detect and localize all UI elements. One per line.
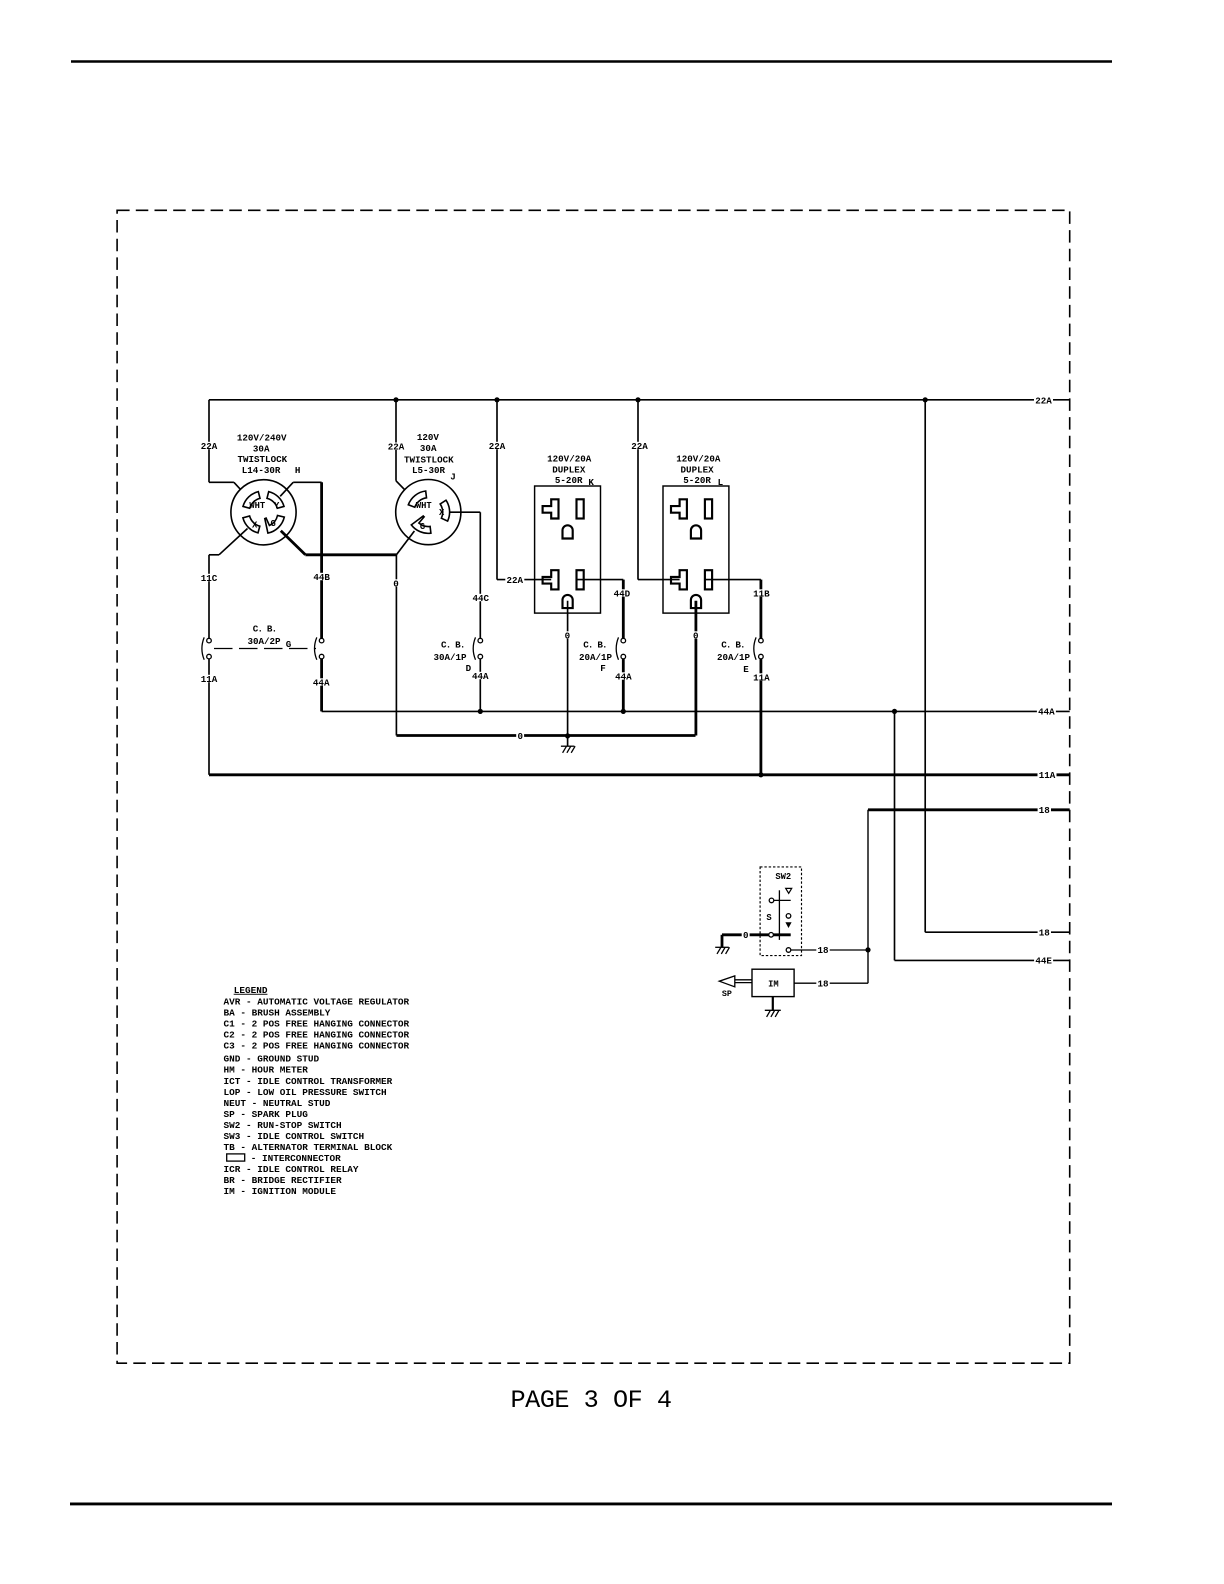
svg-text:L14-30R: L14-30R [242,465,281,476]
label net 44A right [1037,708,1056,715]
wire 22A drop to H [208,400,210,483]
svg-text:C1 - 2 POS FREE HANGING CONNEC: C1 - 2 POS FREE HANGING CONNECTOR [224,1019,410,1030]
label wire 22A (L drop) [630,442,649,449]
label net 44E right [1034,957,1053,964]
svg-text:ICR - IDLE CONTROL RELAY: ICR - IDLE CONTROL RELAY [224,1164,359,1175]
svg-text:11A: 11A [1039,770,1056,781]
svg-text:22A: 22A [507,575,524,586]
svg-text:H: H [295,465,301,476]
wire 44A bus [480,710,1069,712]
label wire 11C [200,574,219,581]
svg-text:TWISTLOCK: TWISTLOCK [237,454,287,465]
svg-text:120V/20A: 120V/20A [547,454,592,465]
wire IM to 18 [794,982,868,984]
node junction 44A/F [621,709,626,714]
svg-text:C. B.: C. B. [253,624,277,635]
wire 44A from CB G [320,659,323,712]
wire 44A from CB F [622,659,625,712]
svg-text:22A: 22A [631,441,648,452]
circuit breaker G 30A/2P [202,637,324,659]
svg-text:G: G [286,639,292,650]
node junction bus/18-branch [923,397,928,402]
label wire 44D [612,589,631,596]
svg-text:SW2: SW2 [775,872,791,882]
circuit breaker E 20A/1P [754,637,763,659]
wire ground stub K [567,736,569,746]
wire 44B [320,482,323,638]
label wire 18 (IM) [816,980,829,987]
svg-text:DUPLEX: DUPLEX [552,465,586,476]
ground symbol (neutral) [561,745,575,747]
node junction bus/K [494,397,499,402]
circuit breaker F 20A/1P [616,637,625,659]
receptacle K body [535,486,601,613]
ignition module IM [752,969,794,996]
wire L out 11B stub [705,579,761,581]
svg-text:C3 - 2 POS FREE HANGING CONNEC: C3 - 2 POS FREE HANGING CONNECTOR [224,1041,410,1052]
node junction bus/J [393,397,398,402]
svg-text:- INTERCONNECTOR: - INTERCONNECTOR [251,1153,341,1164]
svg-text:11C: 11C [201,573,218,584]
label wire 44C [471,594,490,601]
label wire 11A (left) [200,675,219,682]
svg-text:SW3 - IDLE CONTROL SWITCH: SW3 - IDLE CONTROL SWITCH [224,1131,365,1142]
svg-text:WHT: WHT [249,501,266,511]
svg-text:X: X [439,508,445,518]
svg-text:C. B.: C. B. [721,640,745,651]
svg-text:D: D [466,663,472,674]
svg-text:44C: 44C [473,593,490,604]
svg-text:44D: 44D [614,588,631,599]
svg-text:J: J [450,472,456,483]
label wire 44A (D) [471,672,490,679]
wire H.X to 11C [219,529,248,555]
label wire 0 (SW2) [742,931,750,938]
svg-text:DUPLEX: DUPLEX [681,465,715,476]
svg-text:22A: 22A [489,441,506,452]
svg-text:11B: 11B [753,588,770,599]
SW2 bottom contact [786,948,791,953]
svg-text:120V/240V: 120V/240V [237,433,287,444]
svg-text:LEGEND: LEGEND [234,985,268,996]
receptacle J L5-30R twistlock [396,479,461,544]
wire H.Y to 44B [280,482,293,496]
label wire 11A (E) [752,673,771,680]
circuit breaker D 30A/1P [473,637,482,659]
label wire 18 (SW2) [816,946,829,953]
svg-text:120V: 120V [417,432,440,443]
label net 18 right [1038,806,1051,813]
node junction 0/ground [565,733,570,738]
svg-text:30A: 30A [420,443,437,454]
svg-text:44E: 44E [1035,956,1052,967]
wire IM ground stub [772,997,774,1011]
svg-text:Y: Y [274,501,280,511]
label wire 22A (J) [387,443,406,450]
receptacle L duplex 5-20R slots [671,499,712,608]
receptacle K duplex 5-20R slots [543,499,584,608]
wire 44D [622,580,625,639]
node junction 11A/E [758,772,763,777]
label net 22A right [1034,396,1053,403]
svg-text:ICT - IDLE CONTROL TRANSFORMER: ICT - IDLE CONTROL TRANSFORMER [224,1076,393,1087]
spark plug arrow SP [719,976,752,987]
wire SW2 ground heavy [722,933,791,936]
svg-text:G: G [420,522,425,532]
svg-text:WHT: WHT [416,501,433,511]
wire 22A drop to K [496,400,498,580]
label wire 11B [752,589,771,596]
svg-text:0: 0 [517,731,523,742]
wire 11A bus heavy [209,773,1070,776]
wire K out 44D stub [577,579,624,581]
label wire 0 (K ground) [563,631,571,638]
svg-text:X: X [252,521,258,531]
ground symbol (SW2) [715,946,729,948]
label net 11A right [1038,771,1057,778]
svg-text:18: 18 [817,945,829,956]
wire 11A from CB G [208,659,210,775]
label wire 44A (F) [614,672,633,679]
svg-text:GND - GROUND STUD: GND - GROUND STUD [224,1054,320,1065]
label wire 44A (G) [312,678,331,685]
svg-text:C. B.: C. B. [441,640,465,651]
label wire 0 (L ground) [692,631,700,638]
svg-text:HM - HOUR METER: HM - HOUR METER [224,1065,309,1076]
svg-text:0: 0 [565,630,571,641]
svg-text:TB - ALTERNATOR TERMINAL BLOCK: TB - ALTERNATOR TERMINAL BLOCK [224,1142,393,1153]
wire 22A top bus [209,399,1070,401]
svg-text:0: 0 [743,930,749,941]
node junction 18/SW2 [865,947,870,952]
svg-text:22A: 22A [1035,395,1052,406]
svg-text:44A: 44A [313,677,330,688]
wire K ground 0 [567,601,569,736]
SW2 moving contact [769,933,774,938]
svg-text:0: 0 [693,630,699,641]
switch SW2 run-stop [760,867,801,956]
svg-text:NEUT - NEUTRAL STUD: NEUT - NEUTRAL STUD [224,1098,331,1109]
receptacle H L14-30R twistlock [231,480,296,545]
legend [224,985,410,1197]
svg-text:18: 18 [1039,805,1051,816]
svg-text:S: S [766,913,771,923]
svg-text:C2 - 2 POS FREE HANGING CONNEC: C2 - 2 POS FREE HANGING CONNECTOR [224,1030,410,1041]
svg-text:30A/2P: 30A/2P [247,636,281,647]
wire J.G to 0 [396,531,414,555]
svg-text:K: K [588,477,594,488]
wire SW2 ground stub [721,935,724,948]
svg-text:L: L [718,477,724,488]
wire 11B [760,580,763,639]
receptacle L body [663,486,729,613]
wire 22A drop to J [395,400,397,481]
svg-text:BR - BRIDGE RECTIFIER: BR - BRIDGE RECTIFIER [224,1175,343,1186]
svg-text:SP: SP [722,989,732,999]
label wire 22A (K drop) [488,442,507,449]
wire 22A drop to L [637,400,639,580]
svg-text:5-20R: 5-20R [683,475,711,486]
label wire 22A (H) [200,442,219,449]
wire 0 neutral heavy [396,734,695,737]
label wire 0 (neutral bus) [516,732,524,739]
wire 44A from CB D [479,659,481,712]
svg-text:44A: 44A [1038,707,1055,718]
svg-text:E: E [743,664,749,675]
wire L ground 0 heavy [695,601,698,736]
label wire 0 (J) [392,579,400,586]
label net 18 lower right [1038,929,1051,936]
svg-text:11A: 11A [753,672,770,683]
label wire 44B [312,573,331,580]
svg-text:IM: IM [768,980,779,990]
svg-text:PAGE 3 OF 4: PAGE 3 OF 4 [510,1386,671,1415]
svg-text:SP - SPARK PLUG: SP - SPARK PLUG [224,1109,309,1120]
svg-text:F: F [600,663,606,674]
svg-text:44A: 44A [615,671,632,682]
svg-text:TWISTLOCK: TWISTLOCK [404,455,454,466]
svg-text:IM - IGNITION MODULE: IM - IGNITION MODULE [224,1186,337,1197]
node junction 44A/D [478,709,483,714]
page bottom rule [70,1502,1112,1505]
svg-text:120V/20A: 120V/20A [676,454,721,465]
svg-text:LOP - LOW OIL PRESSURE SWITCH: LOP - LOW OIL PRESSURE SWITCH [224,1087,387,1098]
svg-text:BA - BRUSH ASSEMBLY: BA - BRUSH ASSEMBLY [224,1007,331,1018]
wire J.X to 44C [450,511,480,513]
ground symbol (IM) [765,1009,781,1011]
wire SW2 pin to 18 [791,949,868,951]
page top rule [71,60,1112,62]
svg-text:44A: 44A [472,671,489,682]
svg-text:18: 18 [817,979,829,990]
svg-text:20A/1P: 20A/1P [717,652,751,663]
svg-text:5-20R: 5-20R [555,475,583,486]
svg-text:G: G [271,519,276,529]
label SW2 [774,872,792,879]
dashed drawing border [117,210,1070,1363]
wire 18 branch from bus [924,400,926,932]
svg-text:22A: 22A [388,442,405,453]
svg-text:C. B.: C. B. [583,640,607,651]
svg-text:AVR - AUTOMATIC VOLTAGE REGULA: AVR - AUTOMATIC VOLTAGE REGULATOR [224,996,410,1007]
svg-text:L5-30R: L5-30R [412,465,446,476]
svg-text:22A: 22A [201,441,218,452]
wire 18 heavy [868,808,1070,811]
svg-text:11A: 11A [201,674,218,685]
svg-text:30A/1P: 30A/1P [433,652,467,663]
node junction 44A/44E [892,709,897,714]
node junction bus/L [635,397,640,402]
wire H.G heavy to J.G [281,531,306,555]
svg-text:18: 18 [1039,928,1051,939]
svg-text:SW2 - RUN-STOP SWITCH: SW2 - RUN-STOP SWITCH [224,1120,342,1131]
svg-text:0: 0 [393,578,399,589]
svg-text:30A: 30A [253,444,270,455]
label wire 22A (K inline) [505,576,524,583]
wire 11A from CB E [760,659,763,775]
wire 44E [894,711,896,960]
svg-text:44B: 44B [313,572,330,583]
svg-text:20A/1P: 20A/1P [579,652,613,663]
